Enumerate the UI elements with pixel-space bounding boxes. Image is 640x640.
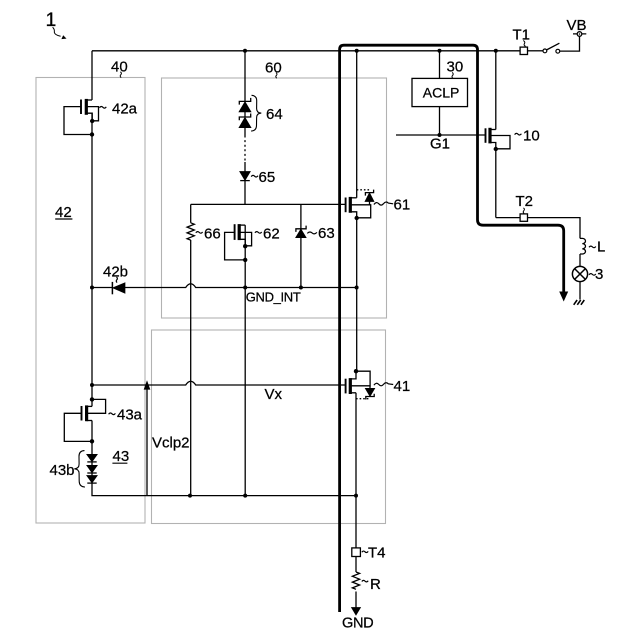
svg-text:63: 63: [318, 225, 335, 242]
svg-text:Vx: Vx: [265, 386, 283, 403]
svg-text:10: 10: [523, 128, 540, 145]
svg-text:3: 3: [595, 266, 603, 283]
svg-text:43b: 43b: [50, 462, 75, 479]
svg-text:R: R: [370, 576, 381, 593]
svg-text:61: 61: [394, 197, 411, 214]
svg-text:G1: G1: [430, 135, 450, 152]
svg-text:64: 64: [266, 106, 283, 123]
svg-text:65: 65: [259, 169, 276, 186]
svg-text:T4: T4: [368, 544, 386, 561]
svg-text:L: L: [597, 239, 605, 256]
svg-text:66: 66: [204, 226, 221, 243]
svg-text:GND: GND: [342, 616, 373, 632]
svg-text:42b: 42b: [103, 264, 128, 281]
svg-text:43: 43: [113, 448, 130, 465]
svg-text:1: 1: [46, 9, 57, 31]
svg-text:40: 40: [111, 59, 128, 76]
svg-text:T2: T2: [516, 193, 534, 210]
svg-text:42a: 42a: [112, 100, 138, 117]
svg-text:62: 62: [263, 226, 280, 243]
svg-text:30: 30: [447, 59, 464, 76]
svg-text:43a: 43a: [117, 406, 143, 423]
svg-text:42: 42: [55, 204, 72, 221]
svg-text:GND_INT: GND_INT: [246, 289, 301, 304]
svg-text:41: 41: [394, 378, 411, 395]
svg-text:ACLP: ACLP: [423, 85, 460, 101]
svg-text:60: 60: [265, 60, 282, 77]
svg-text:VB: VB: [567, 17, 587, 34]
svg-text:T1: T1: [513, 27, 531, 44]
svg-text:Vclp2: Vclp2: [152, 434, 190, 451]
